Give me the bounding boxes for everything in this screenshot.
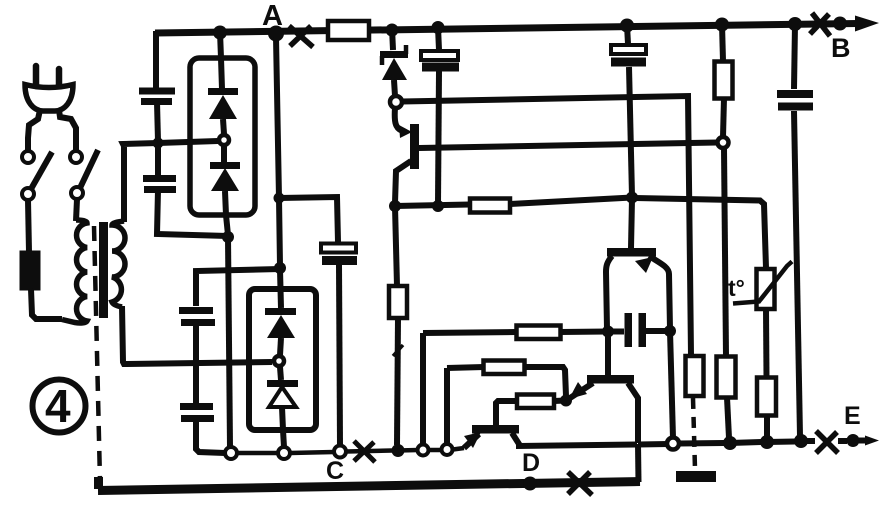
wire node a3 to capacitor C5 bbox=[279, 197, 338, 242]
zener diode VD3 cathode bar bbox=[380, 51, 408, 58]
capacitor C9 right plate bbox=[639, 313, 647, 347]
node circle t1 bbox=[718, 137, 729, 148]
capacitor C7 bottom plate bbox=[611, 58, 646, 67]
capacitor C1 bbox=[139, 88, 175, 95]
transistor Q3 collector bbox=[605, 333, 611, 375]
diode VD1.1 bbox=[208, 88, 238, 95]
resistor R7 bbox=[517, 395, 554, 409]
svg-text:B: B bbox=[831, 33, 851, 63]
transistor Q1 collector bbox=[395, 161, 411, 203]
wire C5 to terminal circle bbox=[339, 265, 340, 445]
wire bridge1 bottom to node a2 bbox=[225, 191, 228, 235]
wire left rail drop to capacitor chain bbox=[153, 31, 159, 88]
wire node q1c to resistor R3 bbox=[395, 205, 470, 207]
wire terminal to Q4 emitter bbox=[453, 448, 464, 450]
junction dot e3 bbox=[760, 435, 774, 449]
wire terminal strip segment bbox=[429, 448, 442, 453]
wire segment e3 to e4 bbox=[767, 439, 795, 446]
wire switch2 to transformer primary top bbox=[76, 199, 77, 221]
svg-text:D: D bbox=[522, 449, 540, 477]
resistor R5 bbox=[517, 326, 561, 340]
junction dot node c4 bbox=[392, 444, 405, 457]
resistor R6 bbox=[484, 361, 525, 375]
adjuster tick on R2 wire bbox=[393, 345, 403, 356]
diode VD2.2 bbox=[280, 367, 281, 380]
junction dot node r3l bbox=[432, 200, 444, 212]
wire plug right leg bbox=[59, 110, 76, 151]
zener diode VD3 lead from rail bbox=[392, 28, 393, 50]
junction dot C6 on rail bbox=[432, 21, 445, 34]
wire terminal strip segment bbox=[290, 452, 334, 453]
junction dot node q3e bbox=[560, 395, 572, 407]
resistor R4 lead from rail bbox=[722, 24, 723, 61]
wire X to E dot bbox=[838, 438, 847, 444]
node circle zener-Q1 emitter bbox=[390, 96, 402, 108]
wire node A vertical drop bbox=[276, 37, 280, 266]
terminal circle c2 bbox=[278, 447, 290, 459]
wire R3 to node q2c bbox=[510, 198, 632, 205]
wire segment e4 to X bbox=[801, 438, 815, 444]
transistor Q4 top lead to resistor R7 bbox=[496, 401, 517, 425]
wire terminal strip segment bbox=[398, 448, 418, 453]
diode VD1.2 bbox=[221, 146, 227, 163]
wire RK1 to R10 bbox=[763, 309, 770, 377]
wire secondary top riser to bridge bbox=[123, 143, 158, 222]
wire t1 down to resistor R9 bbox=[724, 148, 726, 356]
resistor R8 vertical on zener line bbox=[686, 356, 704, 396]
capacitor C5 bottom plate bbox=[322, 256, 357, 265]
transformer T1 core bar bbox=[99, 222, 108, 318]
transistor Q2 emitter right leg with arrow bbox=[649, 256, 670, 329]
junction dot node q2r bbox=[664, 325, 676, 337]
wire C7 down to node q2c bbox=[629, 67, 632, 196]
terminal dot E bbox=[847, 434, 860, 447]
junction dot node a4 bbox=[274, 262, 286, 274]
svg-text:4: 4 bbox=[45, 380, 71, 432]
capacitor C8 bbox=[777, 90, 813, 98]
wire cap chain to bottom node bbox=[157, 190, 228, 236]
wire node a2 down to terminal C1 circle bbox=[228, 237, 230, 447]
X break mark on bottom rail bbox=[568, 472, 592, 495]
mains plug X1 bbox=[25, 85, 73, 112]
terminal circle c1 bbox=[225, 447, 237, 459]
terminal circle c6 bbox=[442, 444, 453, 455]
junction dot node q2l bbox=[602, 326, 614, 338]
terminal circle e1 bbox=[667, 438, 679, 450]
capacitor C7 electrolytic top plate bbox=[611, 45, 646, 54]
capacitor C6 electrolytic top plate bbox=[421, 51, 458, 60]
wire feedback corner down to bottom rail bbox=[635, 444, 642, 482]
resistor R4 vertical bbox=[715, 62, 733, 99]
transistor Q2 collector bbox=[631, 199, 632, 248]
transistor Q4 right leg to feedback wire bbox=[512, 433, 637, 446]
wire node q2c to thermistor column bbox=[632, 198, 766, 268]
resistor R2 vertical bbox=[395, 206, 397, 286]
thermistor RK1 body bbox=[757, 269, 775, 309]
svg-text:E: E bbox=[844, 402, 861, 430]
capacitor C7 lead from rail bbox=[627, 25, 628, 44]
X break mark before E bbox=[816, 431, 838, 453]
junction dot R4 on rail bbox=[715, 18, 729, 32]
X break mark near C bbox=[354, 441, 375, 462]
resistor R1 on top rail bbox=[328, 21, 369, 40]
wire bottom chassis rail (thick) bbox=[98, 477, 640, 491]
wire terminal strip segment bbox=[237, 451, 278, 456]
transistor Q3 emitter with arrow bbox=[570, 383, 593, 398]
wire R10 to e3 bbox=[764, 416, 770, 438]
transistor Q4 emitter with arrow bbox=[464, 434, 479, 448]
junction dot C8 on rail bbox=[788, 17, 802, 31]
resistor R10 vertical bbox=[757, 378, 776, 416]
transistor Q1 base bar bbox=[410, 124, 419, 169]
capacitor C6 lead from rail bbox=[438, 27, 439, 50]
diode VD2.1 bbox=[265, 308, 296, 315]
switch S1.1 bbox=[22, 151, 34, 163]
junction dot node q1c bbox=[389, 200, 401, 212]
wire node a4 left to capacitor C3 chain bbox=[196, 269, 280, 306]
junction dot at B bbox=[833, 17, 847, 31]
svg-text:A: A bbox=[262, 0, 283, 32]
rectifier bridge VD1 box bbox=[190, 58, 255, 215]
capacitor C3 bbox=[179, 307, 213, 314]
transistor Q2 base bar bbox=[607, 248, 656, 257]
junction dot on bottom rail bbox=[523, 477, 537, 491]
capacitor C4 bbox=[180, 403, 213, 410]
svg-text:C: C bbox=[326, 457, 344, 485]
wire terminal strip segment bbox=[346, 451, 392, 452]
wire y332 from corner to node q2l bbox=[423, 332, 516, 333]
X break mark on rail before B bbox=[810, 13, 830, 36]
thermistor RK1 diagonal stroke bbox=[733, 262, 792, 304]
capacitor C9 left plate bbox=[625, 313, 633, 347]
X break mark on rail after A bbox=[289, 26, 313, 47]
transistor Q2 left leg bbox=[606, 256, 612, 329]
terminal circle c3 bbox=[334, 446, 346, 458]
chassis ground bar bbox=[676, 471, 716, 482]
junction dot e2 bbox=[723, 436, 737, 450]
transformer T1 secondary winding bbox=[112, 221, 125, 307]
junction dot e4 bbox=[794, 434, 808, 448]
capacitor C5 electrolytic top plate bbox=[321, 244, 356, 253]
junction dot node q2c bbox=[626, 192, 638, 204]
capacitor C6 bottom plate bbox=[422, 63, 459, 72]
wire zener node to right column (long horizontal) bbox=[402, 96, 691, 355]
wire R9 to e2 bbox=[727, 398, 729, 439]
junction dot C7 on rail bbox=[620, 19, 634, 33]
transistor Q3 right leg down to feedback corner bbox=[628, 383, 638, 443]
wire bridge2 bottom to terminal circle bbox=[282, 407, 284, 447]
rectifier bridge VD2 box bbox=[249, 289, 316, 430]
wire C9 leads bbox=[608, 329, 624, 335]
wire node q2r down to terminal circle e1 bbox=[670, 331, 673, 438]
wire rail to bridge1 top bbox=[220, 32, 222, 89]
wire Q1 base to node t1 (long horizontal) bbox=[419, 143, 717, 149]
wire C4 to terminal wire bbox=[196, 422, 225, 453]
resistor R9 vertical bbox=[717, 357, 736, 398]
junction dot node a2 bbox=[222, 231, 234, 243]
wire C6 down to node q1c bbox=[438, 72, 439, 205]
terminal circle c5 bbox=[418, 445, 429, 456]
label 4 circled figure number bbox=[33, 380, 86, 433]
transistor Q3 base bar bbox=[587, 375, 634, 384]
capacitor C2 bbox=[155, 145, 161, 175]
wire fuse to transformer primary bottom bbox=[31, 289, 62, 319]
junction dot bridge1 top on rail bbox=[213, 26, 227, 40]
wire switch1 to fuse bbox=[28, 200, 29, 252]
zener diode VD3 anode triangle bbox=[382, 58, 407, 80]
wire node a4 into bridge2 bbox=[280, 270, 281, 308]
fuse F1 bbox=[21, 252, 39, 289]
wire top supply rail A-B bbox=[155, 24, 858, 34]
wire corner down to terminal circle c5 bbox=[420, 333, 426, 444]
wire y367 corner to resistor R6 bbox=[447, 367, 484, 368]
capacitor C8 lead from rail bbox=[794, 24, 795, 89]
wire bottom right rail to E bbox=[638, 441, 668, 448]
junction dot node a1 bbox=[153, 138, 164, 149]
wire C8 down to node E wire bbox=[794, 111, 800, 436]
arrow B end of rail bbox=[855, 16, 879, 32]
node A junction dot bbox=[268, 26, 284, 42]
wire segment e2 to e3 bbox=[730, 442, 761, 443]
bridge1 AC terminal circle bbox=[219, 135, 229, 145]
transformer T1 primary winding bbox=[62, 220, 87, 323]
wire plug left leg bbox=[28, 110, 40, 151]
switch S1.2 bbox=[70, 151, 82, 163]
wire corner down to terminal circle c6 bbox=[444, 368, 450, 444]
bridge2 AC terminal circle bbox=[274, 356, 284, 366]
transistor Q4 base bar bbox=[472, 425, 519, 434]
wire segment e1 to e2 bbox=[679, 440, 724, 447]
junction dot zener on rail bbox=[386, 24, 399, 37]
wire node a1 to bridge1 AC terminal bbox=[158, 141, 218, 143]
transformer screen dashed line to chassis bbox=[94, 226, 100, 481]
transistor Q1 emitter with arrow bbox=[395, 108, 405, 132]
dashed wire R8 to chassis ground bbox=[693, 398, 695, 469]
svg-text:t°: t° bbox=[728, 275, 745, 301]
arrow at E bbox=[859, 438, 866, 444]
wire secondary bottom to bridge2 AC terminal bbox=[122, 306, 272, 364]
junction dot node a3 bbox=[274, 193, 285, 204]
resistor R3 bbox=[470, 199, 510, 213]
